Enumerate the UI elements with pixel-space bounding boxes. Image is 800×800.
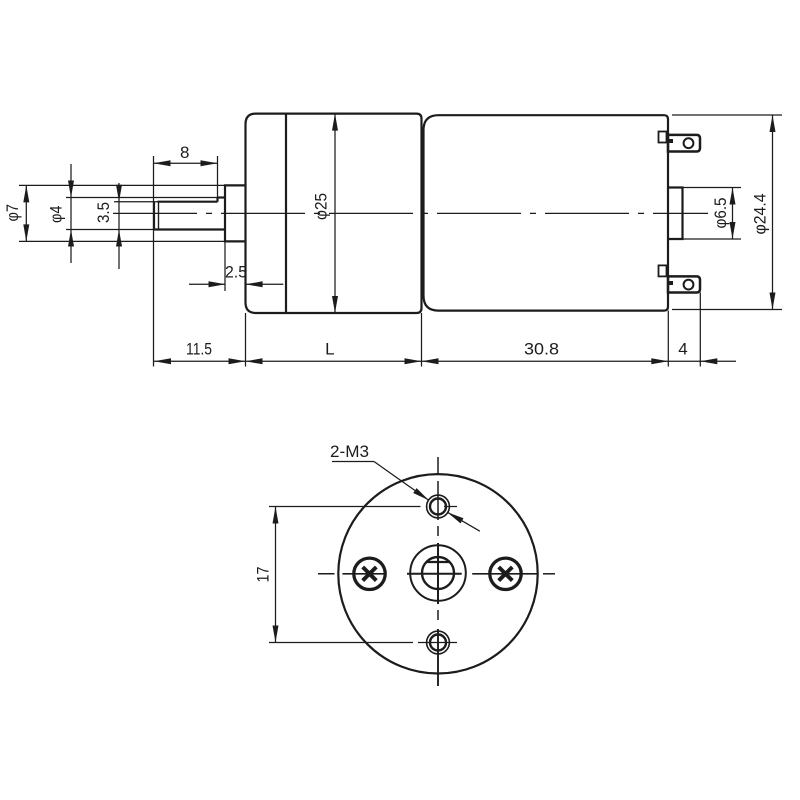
bottom terminal hole (684, 280, 694, 290)
front view gearbox face circle (338, 474, 537, 673)
2.5 left arrow (outside) (209, 281, 226, 287)
phi6.5 dimension line (732, 188, 734, 240)
L right arrow (405, 358, 422, 364)
bottom M3 hole (427, 631, 450, 654)
17 top arrow (273, 507, 279, 524)
svg-text:17: 17 (254, 567, 273, 583)
2.5 left extension line (224, 241, 226, 291)
extension gearbox left face (245, 313, 247, 367)
2-M3 leader line (374, 462, 429, 501)
3.5 top extension line (114, 201, 158, 203)
phi4 bottom arrow (outside) (68, 230, 74, 247)
top terminal hole (684, 138, 694, 148)
gearbox flange line (285, 114, 287, 313)
top M3 hole (427, 495, 450, 518)
side view centerline (113, 212, 708, 214)
L left arrow (246, 358, 263, 364)
17 bottom extension line right part (418, 642, 457, 644)
17 top extension line (269, 506, 421, 508)
svg-text:φ24.4: φ24.4 (751, 194, 770, 235)
flat step (216, 198, 218, 202)
17 bottom arrow (273, 626, 279, 643)
extension motor right edge (667, 311, 669, 367)
17 dimension line (275, 507, 277, 643)
8 right extension line (217, 156, 219, 202)
2.5 right arrow (outside) (246, 281, 263, 287)
rear shaft boss (668, 188, 683, 240)
phi4 bottom extension line (66, 229, 154, 231)
8 dimension line (154, 162, 218, 164)
bottom dimension line (154, 360, 736, 362)
phi7 bottom extension line (19, 240, 225, 242)
svg-text:30.8: 30.8 (524, 340, 559, 359)
left screw head (354, 558, 385, 589)
2-M3 leader arrow (413, 488, 429, 500)
17 bottom extension line (269, 642, 413, 644)
phi6.5 bottom arrow (730, 222, 736, 239)
11.5 right arrow (229, 358, 246, 364)
phi24.4 top arrow (770, 115, 776, 132)
front shaft flat chord (427, 561, 450, 563)
phi4 top arrow (outside) (68, 181, 74, 198)
phi7 bottom arrow (23, 224, 29, 241)
phi6.5 bottom extension line (669, 238, 741, 240)
2-M3 underline (332, 461, 374, 463)
8 right arrow (201, 160, 218, 166)
extension gearbox right edge (421, 313, 423, 367)
phi25 top arrow (332, 114, 338, 131)
30.8 right arrow (651, 358, 668, 364)
right screw head (490, 558, 521, 589)
front view horizontal centerline (318, 573, 335, 575)
phi7 top extension line (19, 184, 225, 186)
11.5 left arrow (154, 358, 171, 364)
phi6.5 top extension line (669, 187, 741, 189)
phi24.4 dimension line (772, 115, 774, 310)
shaft tip chamfer line (158, 202, 160, 230)
front shaft circle (422, 557, 454, 589)
gearbox body outline (246, 114, 422, 313)
front hub outer circle (410, 545, 466, 601)
30.8 left arrow (422, 358, 439, 364)
shaft tip face (153, 202, 155, 230)
phi24.4 top extension line (672, 114, 782, 116)
svg-text:φ6.5: φ6.5 (711, 198, 730, 229)
svg-text:L: L (325, 340, 334, 359)
8 left arrow (154, 160, 171, 166)
bottom terminal tab (668, 276, 700, 292)
extension terminal right edge (699, 293, 701, 367)
svg-text:4: 4 (678, 340, 687, 359)
phi4 dimension line (70, 164, 72, 263)
svg-text:11.5: 11.5 (186, 340, 212, 359)
bottom terminal notch (669, 281, 674, 285)
front bearing boss phi7 (225, 185, 246, 241)
phi25 dimension line (334, 114, 336, 313)
phi24.4 bottom arrow (770, 293, 776, 310)
shaft top edge (full dia) (218, 196, 226, 198)
phi7 top arrow (23, 185, 29, 202)
svg-text:φ4: φ4 (47, 206, 66, 224)
phi6.5 top arrow (730, 188, 736, 205)
4 right arrow (700, 358, 717, 364)
shaft flat line (158, 201, 218, 203)
svg-text:3.5: 3.5 (94, 202, 113, 223)
phi24.4 bottom extension line (672, 309, 782, 311)
2.5 dim line right part (246, 283, 284, 285)
motor body outline (424, 115, 669, 310)
phi7 dimension line (25, 185, 27, 241)
front view vertical centerline (437, 457, 439, 475)
svg-text:2.5: 2.5 (225, 263, 247, 282)
svg-text:φ7: φ7 (3, 204, 22, 222)
top terminal base square (659, 132, 667, 143)
3.5 bottom arrow (outside) (116, 230, 122, 247)
phi4 top extension line (66, 197, 218, 199)
shaft bottom edge (154, 228, 225, 230)
svg-text:8: 8 (180, 143, 189, 162)
2-M3 second arrow (447, 512, 463, 523)
3.5 dimension line (118, 183, 120, 269)
2.5 dim line left part (189, 283, 226, 285)
top terminal tab (668, 135, 700, 152)
bottom terminal base square (659, 265, 667, 276)
svg-text:2-M3: 2-M3 (330, 442, 369, 461)
phi25 bottom arrow (332, 296, 338, 313)
2-M3 second leader line (447, 512, 480, 531)
3.5 top arrow (outside) (116, 185, 122, 202)
17 top extension line right tick (444, 506, 457, 508)
svg-text:φ25: φ25 (312, 193, 331, 220)
top terminal notch (669, 139, 674, 143)
extension line shaft tip (153, 156, 155, 367)
